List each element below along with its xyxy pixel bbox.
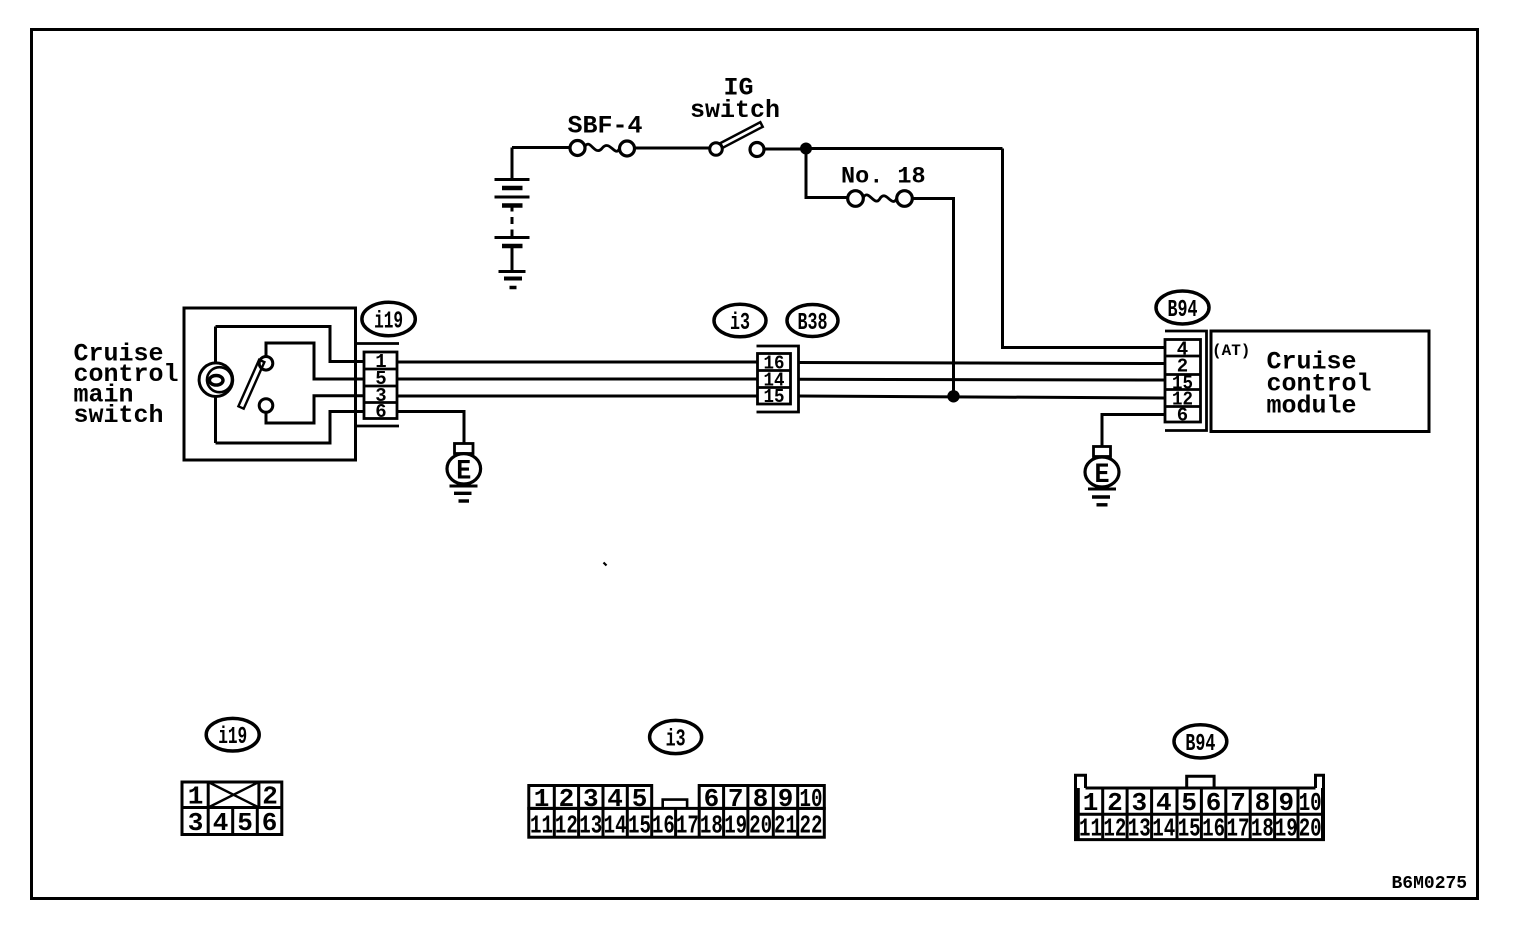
- svg-text:module: module: [1267, 392, 1357, 421]
- svg-text:14: 14: [1152, 814, 1175, 844]
- connector i3 pin layout oval label: [650, 720, 702, 753]
- connector i3 oval label: [714, 304, 766, 337]
- label Cruise control module: [1267, 348, 1372, 421]
- svg-text:13: 13: [1128, 814, 1151, 844]
- connector i19 pin box: [364, 352, 397, 419]
- wire battery top to SBF-4: [512, 146, 570, 149]
- svg-text:14: 14: [604, 810, 627, 840]
- wire lamp top to i19 pin 1: [216, 327, 365, 362]
- svg-text:E: E: [1095, 460, 1110, 491]
- svg-text:9: 9: [778, 784, 794, 814]
- IG switch: [710, 122, 764, 156]
- connector B38 oval label: [787, 305, 838, 337]
- svg-text:15: 15: [628, 810, 651, 840]
- switch contact top: [259, 357, 273, 371]
- svg-text:11: 11: [1079, 814, 1102, 844]
- svg-text:3: 3: [188, 808, 204, 838]
- svg-text:18: 18: [1251, 814, 1274, 844]
- svg-text:SBF-4: SBF-4: [568, 112, 643, 141]
- svg-text:5: 5: [237, 808, 253, 838]
- svg-text:20: 20: [1299, 814, 1322, 844]
- wire row 2 i19 to i3: [397, 378, 758, 381]
- svg-text:18: 18: [700, 810, 723, 840]
- svg-text:21: 21: [774, 810, 797, 840]
- battery: [495, 148, 530, 271]
- svg-text:6: 6: [1177, 405, 1188, 427]
- svg-text:17: 17: [676, 810, 699, 840]
- svg-text:6: 6: [262, 808, 278, 838]
- junction node: [800, 143, 812, 155]
- svg-text:19: 19: [1275, 814, 1298, 844]
- svg-text:15: 15: [764, 386, 785, 408]
- cruise control main switch box: [184, 308, 356, 460]
- svg-text:B94: B94: [1185, 731, 1215, 758]
- junction node on row 3: [947, 390, 959, 402]
- connector i3 pin box: [758, 354, 791, 405]
- connector B94 pin layout grid: [1078, 788, 1322, 840]
- svg-text:16: 16: [1202, 814, 1225, 844]
- svg-text:B38: B38: [798, 310, 828, 337]
- svg-text:(AT): (AT): [1212, 342, 1250, 360]
- connector i19 pin layout oval label: [206, 718, 259, 751]
- wire junction down to fuse No.18: [806, 149, 848, 198]
- svg-text:6: 6: [375, 401, 386, 423]
- wire row 3 B38 to B94 pin 12: [799, 396, 1166, 398]
- i3 layout pin numbers row 1: [534, 784, 823, 814]
- svg-text:13: 13: [579, 810, 602, 840]
- switch contact upper to i19 pin 5: [266, 343, 364, 379]
- connector B94 oval label: [1156, 291, 1209, 324]
- switch contact bottom: [259, 399, 273, 413]
- ground E right: [1085, 447, 1119, 505]
- connector i19 shell tick bottom: [357, 425, 400, 428]
- wire row 3 i19 to i3: [397, 395, 758, 398]
- wire corner down to B94 pin 4: [1003, 149, 1166, 348]
- svg-text:11: 11: [530, 810, 553, 840]
- fusible link SBF-4: [570, 141, 635, 157]
- connector i19 oval label: [362, 302, 415, 335]
- wire B94 pin 6 to ground: [1102, 415, 1165, 447]
- svg-text:B6M0275: B6M0275: [1392, 874, 1468, 894]
- wire row 1 B38 to B94 pin 2: [799, 363, 1166, 364]
- svg-text:E: E: [456, 457, 471, 488]
- svg-text:22: 22: [800, 810, 823, 840]
- B94 layout pin numbers row 1: [1083, 788, 1322, 818]
- svg-text:B94: B94: [1168, 297, 1198, 324]
- i3 layout pin numbers row 2: [530, 810, 823, 840]
- svg-text:No. 18: No. 18: [841, 164, 926, 191]
- connector i3 pin layout table: [529, 786, 825, 838]
- connector i19 pin layout table: [182, 782, 282, 835]
- lamp circuit left side with bulb: [199, 327, 233, 444]
- connector B94 pin box: [1165, 340, 1201, 423]
- svg-text:6: 6: [704, 784, 720, 814]
- wire No.18 fuse down to node on row 3: [912, 199, 953, 397]
- svg-text:8: 8: [753, 784, 769, 814]
- svg-text:2: 2: [262, 782, 278, 812]
- svg-text:15: 15: [1178, 814, 1201, 844]
- ground E left: [447, 444, 481, 502]
- B94 layout pin numbers row 2: [1079, 814, 1322, 844]
- wire junction to corner: [806, 147, 1003, 150]
- svg-text:16: 16: [652, 810, 675, 840]
- svg-text:i3: i3: [730, 310, 750, 337]
- svg-text:4: 4: [213, 808, 229, 838]
- svg-text:2: 2: [559, 784, 575, 814]
- svg-text:4: 4: [607, 784, 623, 814]
- wire SBF-4 to IG switch: [635, 147, 709, 150]
- svg-text:20: 20: [749, 810, 772, 840]
- svg-text:i3: i3: [666, 726, 686, 753]
- wire row 1 i19 to i3: [397, 361, 758, 364]
- svg-text:17: 17: [1227, 814, 1250, 844]
- svg-text:switch: switch: [690, 96, 780, 125]
- svg-text:19: 19: [724, 810, 747, 840]
- connector B94 shell bracket: [1165, 331, 1207, 431]
- connector i19 shell tick top: [357, 342, 400, 345]
- svg-text:12: 12: [555, 810, 578, 840]
- svg-text:i19: i19: [374, 309, 403, 336]
- svg-text:switch: switch: [74, 401, 164, 430]
- wire lamp bottom to i19 pin 6: [216, 412, 365, 444]
- svg-text:1: 1: [188, 782, 204, 812]
- svg-text:7: 7: [728, 784, 744, 814]
- svg-text:1: 1: [534, 784, 550, 814]
- svg-text:i19: i19: [218, 724, 247, 751]
- label Cruise control main switch: [74, 340, 179, 431]
- fuse No. 18: [848, 191, 913, 207]
- battery ground: [499, 272, 526, 288]
- svg-text:5: 5: [632, 784, 648, 814]
- svg-text:10: 10: [800, 784, 823, 814]
- wire IG switch to junction: [764, 148, 806, 151]
- connector B38 shell bracket: [757, 346, 799, 412]
- connector B94 pin layout shell with ears and key: [1076, 775, 1324, 839]
- svg-text:12: 12: [1103, 814, 1126, 844]
- cruise control module box: [1211, 331, 1429, 432]
- wire row 2 B38 to B94 pin 15: [799, 378, 1166, 382]
- svg-text:3: 3: [583, 784, 599, 814]
- wire i19 pin 6 to ground: [397, 412, 464, 444]
- i19 layout pin numbers: [188, 782, 278, 839]
- switch contact lower to i19 pin 3: [266, 396, 364, 423]
- switch blade: [238, 360, 264, 409]
- connector B94 pin layout oval label: [1174, 725, 1227, 758]
